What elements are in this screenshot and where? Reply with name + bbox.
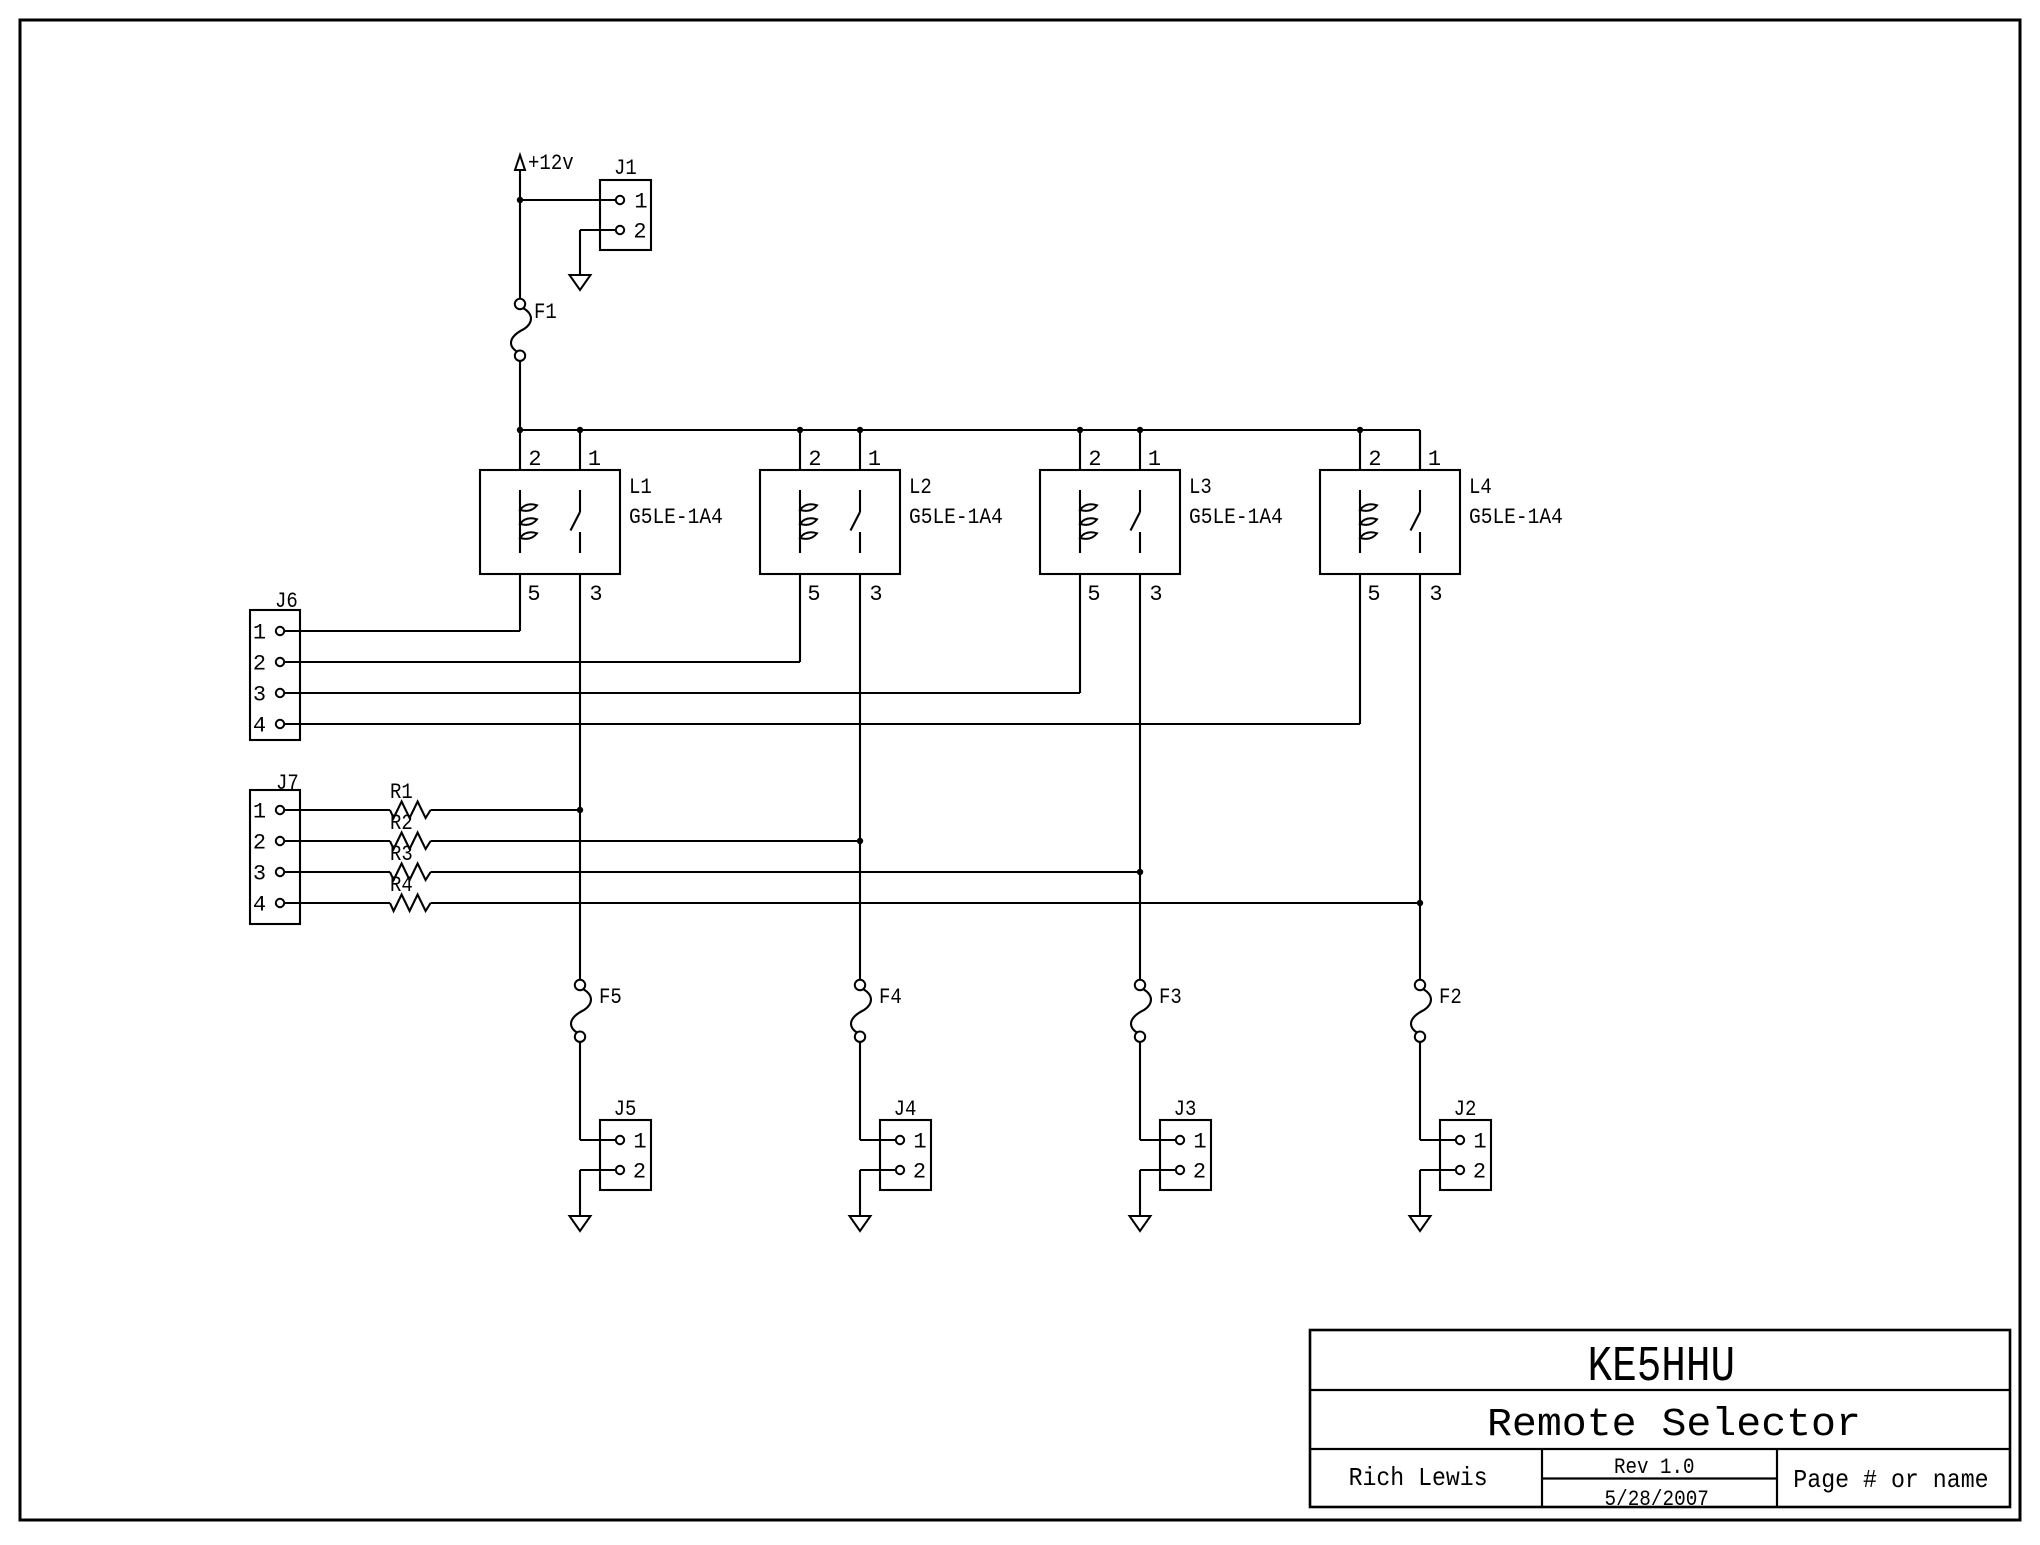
svg-text:Page # or name: Page # or name: [1793, 1465, 1988, 1495]
wire J2 pin 2 to ground: [1420, 1169, 1456, 1171]
node junction R1/column: [577, 807, 583, 813]
svg-text:F2: F2: [1439, 985, 1462, 1010]
svg-text:L4: L4: [1469, 475, 1492, 500]
svg-text:2: 2: [633, 220, 646, 245]
svg-text:4: 4: [253, 714, 266, 739]
fuse F1: [511, 299, 531, 361]
node junction R2/column: [857, 838, 863, 844]
wire J1 pin 2 to ground: [580, 229, 616, 231]
svg-text:R4: R4: [390, 873, 413, 898]
svg-text:5: 5: [1367, 582, 1380, 607]
pin 2 of J2: [1456, 1160, 1486, 1185]
wire bus to L2 pin 2: [799, 430, 801, 470]
svg-text:G5LE-1A4: G5LE-1A4: [629, 505, 723, 530]
ground (J4): [850, 1216, 871, 1231]
svg-text:L3: L3: [1189, 475, 1212, 500]
pin 1 of J5: [616, 1130, 647, 1155]
wire to J1 pin 1: [520, 199, 616, 201]
wire +12v to F1: [519, 170, 521, 299]
wire L pin 3 column to F3: [1139, 574, 1141, 980]
pin 1 of J4: [896, 1130, 927, 1155]
wire J4 pin 2 to ground: [860, 1169, 896, 1171]
relay L2: [760, 470, 900, 574]
node bus junction x=1080: [1077, 427, 1083, 433]
connector J5: [600, 1097, 651, 1190]
svg-text:1: 1: [1473, 1130, 1486, 1155]
ground (J5): [570, 1216, 591, 1231]
svg-text:1: 1: [253, 621, 266, 646]
svg-text:1: 1: [253, 800, 266, 825]
pin 1 of J7: [253, 800, 284, 825]
wire L pin 3 column to F4: [859, 574, 861, 980]
svg-text:J5: J5: [614, 1097, 637, 1122]
wire R3 to column: [431, 871, 1140, 873]
svg-text:Rev 1.0: Rev 1.0: [1614, 1455, 1695, 1480]
wire J7 pin 4 to R4: [284, 902, 390, 904]
svg-text:2: 2: [1368, 447, 1381, 472]
pin 2 of J4: [896, 1160, 926, 1185]
svg-text:1: 1: [633, 1130, 646, 1155]
wire bus to L4 pin 2: [1359, 430, 1361, 470]
pin 2 of J7: [253, 831, 284, 856]
wire J6 pin 2 to L2 pin 5: [284, 661, 800, 663]
resistor R1: [390, 780, 431, 818]
svg-text:L1: L1: [629, 475, 652, 500]
svg-text:F1: F1: [534, 300, 557, 325]
wire R4 to column: [431, 902, 1420, 904]
wire L pin 3 column to F2: [1419, 574, 1421, 980]
wire bus to L1 pin 1: [579, 430, 581, 470]
fuse F2: [1411, 980, 1431, 1042]
svg-text:F4: F4: [879, 985, 902, 1010]
wire F1 to bus / L1 pin 2: [519, 361, 521, 470]
pin 2 of J1: [616, 220, 647, 245]
svg-text:2: 2: [253, 831, 266, 856]
svg-text:Rich Lewis: Rich Lewis: [1349, 1463, 1488, 1493]
wire J6 pin 4 to L4 pin 5: [284, 723, 1360, 725]
relay L4: [1320, 470, 1460, 574]
wire R2 to column: [431, 840, 860, 842]
svg-text:3: 3: [253, 862, 266, 887]
wire J3 pin 2 to ground: [1140, 1169, 1176, 1171]
svg-text:F5: F5: [599, 985, 622, 1010]
pin 2 of J5: [616, 1160, 646, 1185]
wire bus to L2 pin 1: [859, 430, 861, 470]
svg-text:5: 5: [527, 582, 540, 607]
node bus junction x=860: [857, 427, 863, 433]
wire J7 pin 1 to R1: [284, 809, 390, 811]
fuse F4: [851, 980, 871, 1042]
fuse F3: [1131, 980, 1151, 1042]
svg-text:2: 2: [808, 447, 821, 472]
node bus junction x=580: [577, 427, 583, 433]
node bus junction x=1140: [1137, 427, 1143, 433]
svg-text:Remote Selector: Remote Selector: [1487, 1403, 1861, 1448]
svg-text:F3: F3: [1159, 985, 1182, 1010]
svg-text:G5LE-1A4: G5LE-1A4: [1469, 505, 1563, 530]
wire bus to L3 pin 1: [1139, 430, 1141, 470]
wire J7 pin 2 to R2: [284, 840, 390, 842]
svg-text:1: 1: [913, 1130, 926, 1155]
wire J6 pin 3 to L3 pin 5: [284, 692, 1080, 694]
node junction R4/column: [1417, 900, 1423, 906]
node bus junction x=800: [797, 427, 803, 433]
wire L pin 3 column to F5: [579, 574, 581, 980]
node junction R3/column: [1137, 869, 1143, 875]
connector J4: [880, 1097, 931, 1190]
connector J2: [1440, 1097, 1491, 1190]
svg-text:1: 1: [1148, 447, 1161, 472]
wire +12V bus: [520, 429, 1420, 431]
svg-text:2: 2: [913, 1160, 926, 1185]
connector J1: [600, 156, 651, 250]
svg-text:4: 4: [253, 893, 266, 918]
pin 4 of J6: [253, 714, 284, 739]
svg-text:3: 3: [1429, 582, 1442, 607]
svg-text:5: 5: [1087, 582, 1100, 607]
wire F4 to J4 pin 1: [859, 1042, 861, 1140]
svg-text:J3: J3: [1174, 1097, 1197, 1122]
title block: [1310, 1330, 2010, 1507]
relay L3: [1040, 470, 1180, 574]
svg-text:5/28/2007: 5/28/2007: [1605, 1487, 1709, 1512]
pin 1 of J6: [253, 621, 284, 646]
svg-text:1: 1: [634, 190, 647, 215]
pin 1 of J2: [1456, 1130, 1487, 1155]
connector J6: [250, 589, 300, 740]
svg-text:2: 2: [633, 1160, 646, 1185]
svg-text:3: 3: [869, 582, 882, 607]
svg-text:1: 1: [1193, 1130, 1206, 1155]
wire bus corner to L4 pin 1: [1419, 430, 1421, 470]
connector J7: [250, 771, 300, 924]
svg-text:J7: J7: [276, 771, 299, 796]
relay L1: [480, 470, 620, 574]
wire bus to L4 pin 1: [1419, 430, 1421, 470]
svg-text:G5LE-1A4: G5LE-1A4: [909, 505, 1003, 530]
svg-text:L2: L2: [909, 475, 932, 500]
node junction at +12v/J1 tap: [517, 197, 523, 203]
wire F5 to J5 pin 1: [579, 1042, 581, 1140]
pin 2 of J6: [253, 652, 284, 677]
pin 1 of J3: [1176, 1130, 1207, 1155]
wire J7 pin 3 to R3: [284, 871, 390, 873]
svg-text:1: 1: [868, 447, 881, 472]
svg-text:R2: R2: [390, 811, 413, 836]
node bus junction x=520: [517, 427, 523, 433]
connector J3: [1160, 1097, 1211, 1190]
svg-text:3: 3: [1149, 582, 1162, 607]
wire J6 pin 1 to L1 pin 5: [284, 630, 520, 632]
svg-text:2: 2: [253, 652, 266, 677]
svg-text:J2: J2: [1454, 1097, 1477, 1122]
svg-text:2: 2: [1473, 1160, 1486, 1185]
pin 3 of J7: [253, 862, 284, 887]
svg-text:+12v: +12v: [528, 151, 574, 176]
svg-text:2: 2: [1088, 447, 1101, 472]
ground (J1): [570, 275, 591, 290]
svg-text:J1: J1: [614, 156, 637, 181]
wire J5 pin 2 to ground: [580, 1169, 616, 1171]
wire R1 to column: [431, 809, 580, 811]
svg-text:1: 1: [588, 447, 601, 472]
svg-text:1: 1: [1428, 447, 1441, 472]
svg-text:J4: J4: [894, 1097, 917, 1122]
node bus junction x=1360: [1357, 427, 1363, 433]
pin 1 of J1: [616, 190, 648, 215]
pin 4 of J7: [253, 893, 284, 918]
svg-text:R3: R3: [390, 842, 413, 867]
wire bus to L3 pin 2: [1079, 430, 1081, 470]
svg-text:KE5HHU: KE5HHU: [1588, 1339, 1736, 1396]
svg-text:3: 3: [253, 683, 266, 708]
ground (J3): [1130, 1216, 1151, 1231]
ground (J2): [1410, 1216, 1431, 1231]
svg-text:R1: R1: [390, 780, 413, 805]
svg-text:J6: J6: [275, 589, 298, 614]
svg-text:G5LE-1A4: G5LE-1A4: [1189, 505, 1283, 530]
svg-text:5: 5: [807, 582, 820, 607]
resistor R2: [390, 811, 431, 849]
fuse F5: [571, 980, 591, 1042]
power symbol +12v: [515, 151, 574, 176]
resistor R4: [390, 873, 431, 911]
resistor R3: [390, 842, 431, 880]
svg-text:3: 3: [589, 582, 602, 607]
svg-text:2: 2: [528, 447, 541, 472]
wire F3 to J3 pin 1: [1139, 1042, 1141, 1140]
pin 3 of J6: [253, 683, 284, 708]
svg-text:2: 2: [1193, 1160, 1206, 1185]
wire F2 to J2 pin 1: [1419, 1042, 1421, 1140]
pin 2 of J3: [1176, 1160, 1206, 1185]
